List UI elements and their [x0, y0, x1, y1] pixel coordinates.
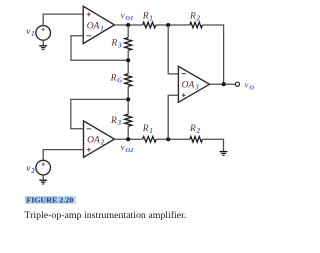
op-amp OA1 — [83, 6, 114, 43]
figure caption highlight band — [25, 196, 76, 203]
node vO1 — [126, 23, 130, 27]
svg-text:R: R — [142, 124, 149, 134]
node between R1 and R2 (top) — [166, 23, 170, 27]
svg-text:R: R — [110, 116, 117, 126]
ground under v1 — [39, 40, 47, 49]
resistor R1 (top) — [143, 22, 156, 28]
svg-text:R: R — [110, 74, 117, 84]
label RG — [110, 74, 123, 85]
label R1 (top) — [142, 12, 153, 23]
svg-text:3: 3 — [117, 43, 122, 50]
resistor R2 (bottom) — [190, 137, 203, 143]
svg-text:2: 2 — [196, 128, 201, 135]
wire OA1 feedback to node between R3 and RG — [71, 36, 127, 61]
wire R3 to node — [127, 50, 129, 73]
label R2 (top) — [189, 12, 201, 23]
wire R3 to node vO2 — [127, 126, 129, 139]
wire OA2 feedback to RG lower node — [71, 99, 127, 128]
wire vO1 node down to R3 — [127, 25, 129, 38]
wire node to OA3 + input — [168, 95, 178, 139]
svg-text:2: 2 — [100, 140, 105, 147]
node vO2 — [126, 137, 130, 141]
label v2 — [26, 164, 35, 175]
svg-text:2: 2 — [196, 16, 201, 23]
svg-text:O1: O1 — [125, 15, 133, 22]
wire v2 to OA2 + input — [43, 150, 83, 161]
wire RG to node — [127, 86, 129, 114]
svg-text:Triple-op-amp instrumentation: Triple-op-amp instrumentation amplifier. — [24, 210, 186, 221]
svg-text:FIGURE 2.20: FIGURE 2.20 — [26, 198, 73, 205]
svg-text:v: v — [121, 10, 125, 20]
resistor R3 (upper) — [125, 38, 132, 51]
wire v1 to OA1 + input — [43, 14, 83, 26]
svg-text:1: 1 — [31, 31, 34, 38]
svg-text:OA: OA — [182, 81, 195, 91]
svg-text:R: R — [189, 124, 196, 134]
voltage source v2 — [36, 160, 51, 175]
label v1 — [26, 27, 34, 38]
label vO1 — [121, 10, 134, 22]
node R3/RG junction — [126, 58, 130, 62]
label R2 (bottom) — [189, 124, 201, 135]
resistor R2 (top) — [190, 22, 203, 28]
op-amp OA2 — [84, 121, 115, 157]
node vO (OA3 output junction) — [222, 82, 226, 86]
label R3 (lower) — [110, 116, 122, 127]
resistor RG — [125, 74, 132, 87]
svg-text:3: 3 — [194, 85, 199, 92]
wire R2 to OA3 output node — [202, 25, 223, 84]
svg-text:3: 3 — [117, 120, 122, 127]
node between R1 and R2 (bottom) — [166, 137, 170, 141]
svg-text:1: 1 — [149, 128, 152, 135]
svg-text:O: O — [249, 84, 254, 91]
ground (right) — [220, 152, 228, 156]
svg-text:G: G — [117, 78, 122, 85]
op-amp OA3 — [178, 66, 209, 102]
wire OA2 output to node vO2 and R1 — [115, 138, 143, 140]
svg-text:OA: OA — [87, 21, 100, 31]
svg-text:O2: O2 — [125, 147, 134, 154]
svg-text:OA: OA — [87, 136, 100, 146]
label vO — [245, 79, 255, 91]
label OA3 — [182, 81, 200, 92]
ground under v2 — [39, 175, 47, 184]
svg-text:R: R — [142, 12, 149, 22]
wire R1 to R2 (bottom) — [156, 138, 190, 140]
output terminal vO (open circle) — [235, 82, 239, 86]
label R1 (bottom) — [142, 124, 153, 135]
svg-text:R: R — [189, 12, 196, 22]
wire R1 to R2 (top) — [156, 24, 190, 26]
svg-text:1: 1 — [100, 25, 103, 32]
node RG/R3 lower junction — [126, 97, 130, 101]
wire node to OA3 - input — [168, 25, 178, 74]
wire OA1 output to node vO1 and R1 — [114, 24, 142, 26]
label OA1 — [87, 21, 104, 32]
resistor R1 (bottom) — [143, 137, 157, 143]
svg-text:v: v — [121, 142, 125, 152]
wire R2 to ground (right) — [202, 139, 223, 151]
svg-text:v: v — [245, 79, 249, 89]
label R3 (upper) — [110, 39, 122, 50]
svg-text:1: 1 — [149, 16, 152, 23]
label OA2 — [87, 136, 105, 147]
svg-text:R: R — [110, 39, 117, 49]
resistor R3 (lower) — [125, 114, 132, 126]
wire OA3 output to node — [210, 83, 236, 85]
svg-text:2: 2 — [30, 168, 35, 175]
voltage source v1 — [36, 26, 51, 41]
label vO2 — [121, 142, 135, 154]
